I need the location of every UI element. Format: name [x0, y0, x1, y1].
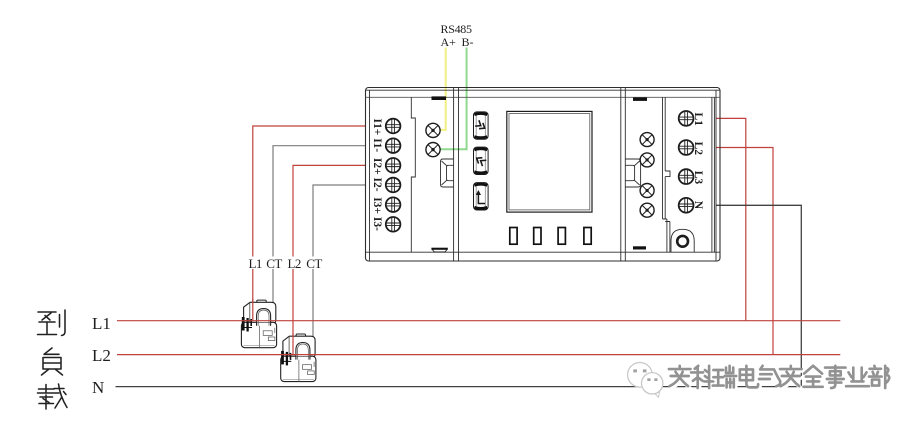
- svg-text:CT: CT: [306, 256, 322, 271]
- CT core (top part): [244, 302, 276, 324]
- svg-text:L1: L1: [249, 256, 262, 271]
- chinese char 载 (zai): [38, 384, 68, 409]
- CT core left face line: [249, 303, 251, 324]
- watermark char an: [669, 366, 692, 388]
- small screws column (x-head): [640, 133, 654, 218]
- mounting ring: [677, 236, 688, 247]
- meter bottom strip line: [366, 251, 721, 253]
- label L2 over wire: [287, 257, 302, 270]
- svg-text:I2+: I2+: [371, 158, 383, 175]
- divider left/middle (double): [454, 88, 459, 262]
- wire I1- to CT1 secondary (grey): [273, 146, 366, 303]
- svg-text:I2-: I2-: [371, 178, 383, 192]
- labels L1 L2 L3 N (rotated): [692, 113, 704, 210]
- svg-text:I1+: I1+: [371, 119, 383, 136]
- svg-text:L2: L2: [288, 256, 301, 271]
- CT clamp CT2 (split-core on L2): [281, 334, 316, 382]
- indicator slot 4: [584, 228, 591, 245]
- watermark char dian: [740, 366, 760, 389]
- svg-text:L2: L2: [92, 346, 111, 365]
- CT housing seam: [259, 326, 261, 348]
- bottom clip bar (black, right): [633, 246, 646, 249]
- RS485 terminal screw B-: [426, 143, 440, 157]
- wire RS485 A+ (yellow): [440, 48, 445, 130]
- svg-text:I1-: I1-: [371, 138, 383, 152]
- watermark char qi: [759, 366, 782, 388]
- svg-text:I3+: I3+: [371, 197, 383, 214]
- CT window arch inner: [258, 310, 269, 326]
- svg-text:I3-: I3-: [371, 217, 383, 231]
- bottom clip bracket: [432, 250, 447, 253]
- watermark char shi: [825, 366, 847, 390]
- label CT over wire: [266, 257, 283, 270]
- divider middle/right (double): [621, 88, 626, 262]
- button 2 (page back): [474, 147, 489, 174]
- terminal block right edge with step: [411, 97, 415, 252]
- placeholder groups filled below: [371, 96, 454, 252]
- svg-text:L2: L2: [692, 142, 704, 156]
- label L1 over wire: [248, 257, 263, 270]
- CT latch (dark): [242, 317, 245, 331]
- bus line L2 (red): [117, 354, 840, 356]
- indicator slot 1: [510, 228, 517, 245]
- wire L1 overlay across CT1: [252, 299, 254, 321]
- indicator slot 2: [534, 228, 541, 245]
- wire L2 from meter right (red): [716, 148, 773, 355]
- CT label plate marks: [263, 331, 272, 336]
- watermark logo big bubble: [628, 363, 653, 388]
- CT bottom housing: [241, 322, 276, 347]
- wire I1+ to CT1 L1 (red): [253, 126, 366, 321]
- mounting lug arch: [671, 229, 694, 252]
- chinese char 到 (dao): [38, 310, 66, 336]
- watermark char rui: [713, 366, 738, 389]
- bus line N (dark): [116, 386, 802, 388]
- top clip bar (black, right): [633, 98, 647, 101]
- svg-text:L1: L1: [692, 113, 704, 127]
- meter inner left wall: [369, 90, 371, 261]
- CT housing edge seen through window: [257, 322, 270, 324]
- label CT over wire: [306, 257, 323, 270]
- svg-text:CT: CT: [266, 256, 282, 271]
- wire RS485 B- (green): [440, 48, 466, 150]
- svg-text:L3: L3: [692, 171, 704, 185]
- block right edge: [712, 97, 715, 252]
- rail release tab (right section, mirrored): [625, 159, 640, 187]
- watermark char ye: [846, 368, 871, 388]
- meter outer case: [366, 88, 721, 262]
- svg-text:N: N: [92, 378, 104, 397]
- indicator slot 3: [558, 228, 565, 245]
- big terminal screws I1+..I3- (phillips): [386, 119, 401, 232]
- meter top strip line: [366, 96, 721, 98]
- meter lid top line: [366, 89, 721, 91]
- button 3 (enter): [474, 183, 489, 210]
- LCD display: [507, 111, 592, 212]
- svg-text:N: N: [692, 201, 704, 210]
- wire L1 from meter right (red): [716, 118, 746, 320]
- block notch: [665, 171, 670, 177]
- CT clamp CT1 (split-core on L1): [241, 300, 276, 348]
- watermark char an2: [780, 366, 803, 388]
- watermark logo small bubble: [655, 392, 660, 397]
- chinese char 负 (fu): [42, 348, 63, 375]
- CT top tab: [257, 300, 266, 302]
- wire I2- to CT2 secondary (grey): [313, 185, 366, 337]
- RS485 terminal screw A+: [426, 123, 440, 137]
- CT housing inner bottom line: [244, 345, 275, 347]
- terminal labels I1+ I1- I2+ I2- I3+ I3- (rotated): [371, 119, 383, 232]
- rail release tab (left section): [441, 159, 454, 187]
- watermark char bu: [869, 366, 891, 390]
- power terminal block edges: [663, 97, 666, 219]
- watermark char ke: [691, 366, 715, 390]
- wire L2 overlay across CT2: [292, 333, 294, 355]
- meter inner right wall: [715, 90, 717, 261]
- button 1 (page fwd): [474, 112, 489, 139]
- watermark text 安科瑞电气安全事业部 (pseudo strokes, embossed): [669, 366, 891, 390]
- CT window arch outer: [257, 309, 271, 326]
- bus line L1 (red): [117, 320, 840, 322]
- wire I2+ to CT2 L2 (red): [293, 165, 366, 354]
- svg-text:L1: L1: [92, 314, 111, 333]
- power screws L1 L2 L3 N (phillips): [679, 111, 694, 213]
- wire N from meter right (dark): [716, 205, 801, 386]
- watermark char quan: [804, 366, 825, 389]
- svg-text:B-: B-: [462, 35, 474, 49]
- top clip bar (black): [432, 96, 447, 100]
- svg-text:A+: A+: [441, 35, 457, 49]
